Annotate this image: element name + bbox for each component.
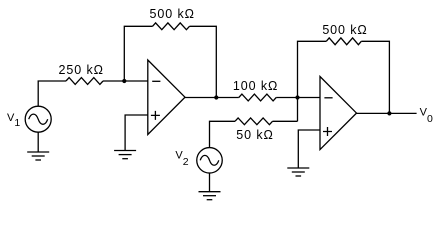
wire V1 top to 250k (38, 81, 66, 106)
voltage source V2 (197, 148, 223, 174)
wire op-amp U2 output to V0 (357, 112, 417, 114)
svg-text:50 kΩ: 50 kΩ (236, 128, 273, 142)
ground below V1 (27, 152, 49, 160)
node D junction dot at output (387, 111, 391, 115)
wire op-amp U1 non-inverting input to ground (125, 115, 148, 151)
svg-text:250 kΩ: 250 kΩ (59, 63, 104, 77)
resistor R2 500 kOhm feedback 1 (153, 23, 190, 30)
op-amp U2 (320, 77, 357, 150)
svg-text:V2: V2 (175, 150, 188, 168)
wire op-amp U1 output to 100k (185, 97, 239, 99)
ground below op-amp U1 (114, 151, 136, 159)
svg-text:500 kΩ: 500 kΩ (150, 7, 195, 21)
node B junction dot at U1 output (214, 95, 218, 99)
wire 50k right lead to node C (273, 120, 298, 122)
svg-text:V1: V1 (7, 112, 20, 129)
wire 50k left lead to V2 (210, 121, 236, 147)
svg-text:100 kΩ: 100 kΩ (233, 79, 278, 93)
ground below op-amp U2 (287, 168, 309, 176)
op-amp U1 minus sign (152, 80, 160, 82)
node A junction dot (122, 79, 126, 83)
op-amp U1 plus sign (151, 111, 160, 120)
node C junction dot at U2 inverting input (295, 95, 299, 99)
resistor R1 250 kOhm (66, 78, 103, 85)
wire node C down to 50k (297, 98, 299, 122)
voltage source V1 (25, 106, 51, 132)
wire V1 bottom to ground (37, 132, 39, 152)
svg-text:V0: V0 (420, 107, 433, 125)
resistor R5 50 kOhm (235, 118, 273, 125)
wire feedback loop 1 (124, 26, 216, 97)
wire 100k to op-amp U2 inverting input (276, 97, 320, 99)
op-amp U2 plus sign (323, 127, 332, 136)
wire V2 bottom to ground (209, 173, 211, 192)
ground below V2 (199, 192, 221, 200)
resistor R4 500 kOhm feedback 2 (326, 38, 361, 45)
wire op-amp U2 non-inverting input to ground (298, 130, 320, 168)
wire feedback loop 2 (298, 41, 390, 113)
op-amp U2 minus sign (324, 97, 332, 99)
op-amp U1 (148, 60, 185, 135)
wire 250k to op-amp U1 inverting input (103, 80, 148, 82)
svg-text:500 kΩ: 500 kΩ (322, 23, 367, 37)
resistor R3 100 kOhm (239, 94, 276, 101)
